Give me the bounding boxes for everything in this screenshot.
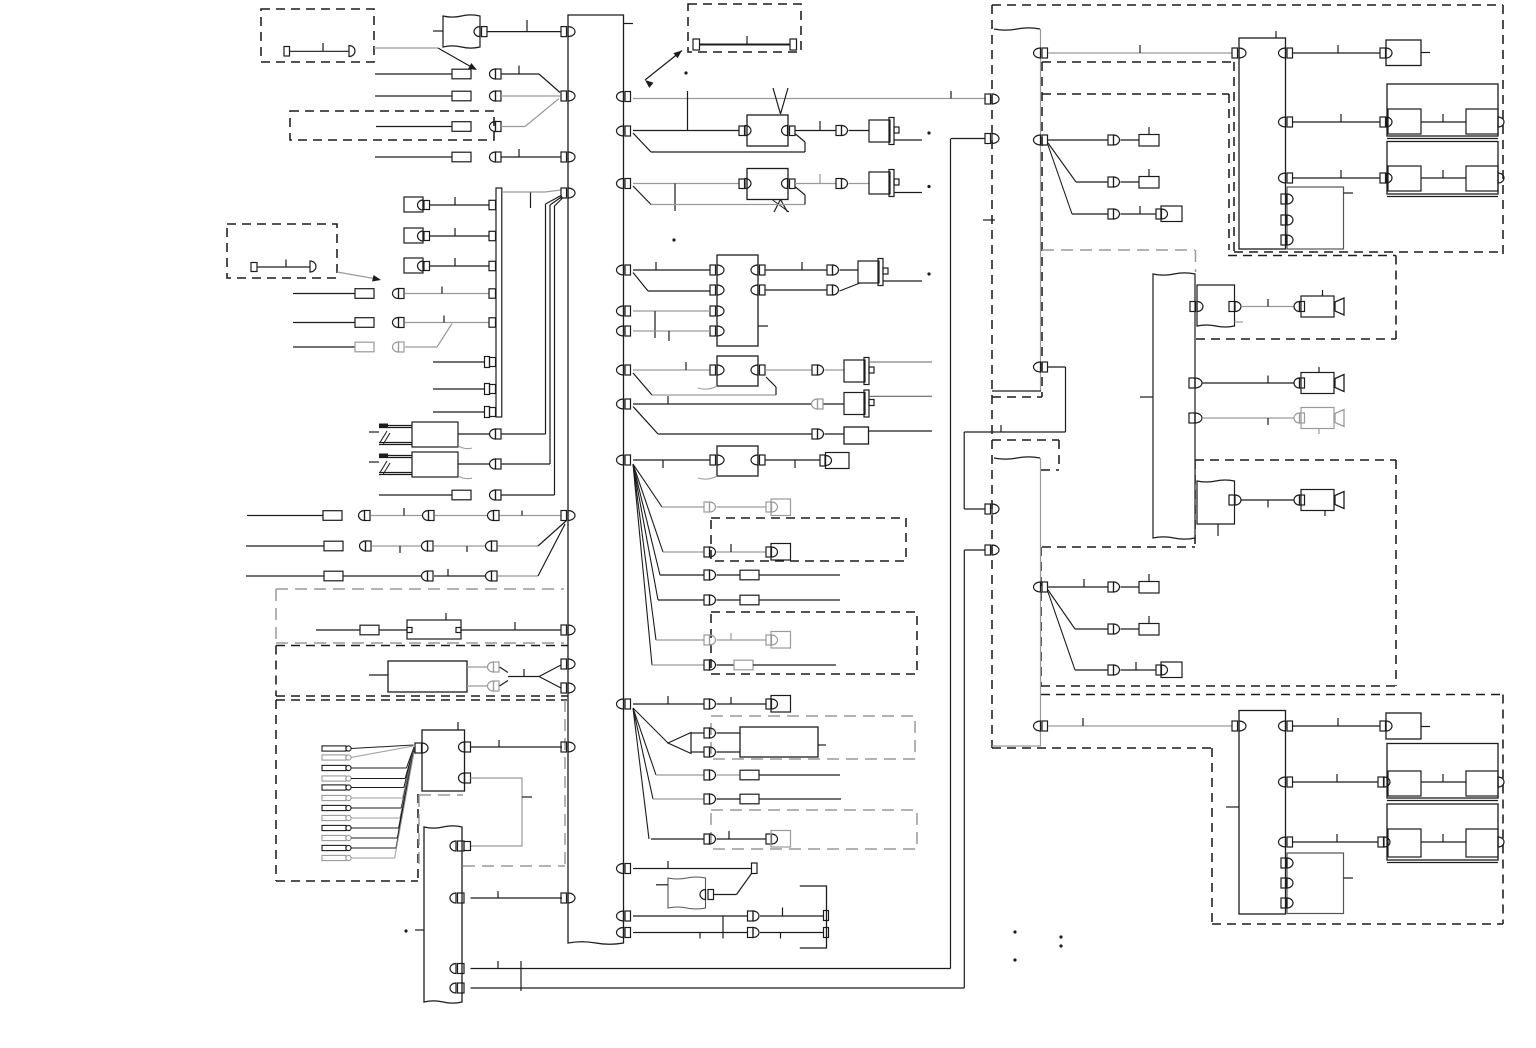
wire row y126 with fuse <box>376 126 452 128</box>
amplifier bus M2 <box>1153 273 1195 539</box>
bracket frame <box>800 886 827 948</box>
ignition coil 2 <box>412 452 458 477</box>
stub wires y362 y389 y412 to J/B-2 <box>433 361 485 363</box>
tick on harness edge y220 <box>983 219 995 221</box>
torn box TB1 (connector module) <box>443 15 480 48</box>
connector R2 left y509 <box>985 504 991 514</box>
engine control box row1 <box>739 126 745 136</box>
fanout R1 y140 <box>1034 135 1041 145</box>
IC2 left pin <box>415 743 422 753</box>
tick TB1 left <box>433 30 443 32</box>
dashed box DB3 (option switch) <box>227 224 337 278</box>
speaker S4 <box>1294 495 1300 505</box>
tick J/B-1 top right <box>624 23 634 25</box>
relay RL4 <box>844 360 865 382</box>
gray dashed box G2 <box>419 794 463 796</box>
unit B3 right pins <box>1279 721 1286 731</box>
IC1 out row y290 diagonal <box>765 289 827 291</box>
fan row y600 fuse <box>658 599 704 601</box>
gray dashed box D1 <box>276 588 564 590</box>
bus R1 (behind dash harness) <box>994 28 1040 30</box>
relay RL2 <box>869 172 890 194</box>
gray dashed box D6 <box>711 716 915 759</box>
connector R1 left y99 <box>985 94 991 104</box>
wavy module WM <box>668 877 706 909</box>
connector at J/B-1 left y=157 <box>561 152 567 162</box>
speaker row y383 <box>1189 378 1195 388</box>
row y404 relay RL5 <box>617 399 624 409</box>
unit B3 wire y726 to box E2 <box>1293 725 1381 727</box>
connector at J/B-1 left y=193 <box>561 188 567 198</box>
unit B wire y122 to DBX1 <box>1293 121 1381 123</box>
double box DBX4 <box>1387 804 1498 860</box>
connector J/B-3 right y968 long wire W1 <box>450 964 456 974</box>
sensor resistor array <box>322 746 346 751</box>
T1 right pin speaker wire <box>1229 302 1235 312</box>
fan row y507 terminal <box>662 506 704 508</box>
IC2 right pin A wire to J/B-1 <box>459 742 465 752</box>
connector R2 right y726 gray wire to unit B3 <box>1034 721 1041 731</box>
row1 return loop <box>633 133 651 152</box>
double-head arrow top <box>645 51 682 81</box>
speaker row y418 gray <box>1189 413 1195 423</box>
wire row y576 <box>246 575 324 577</box>
row2 return loop <box>633 186 651 205</box>
switch row y236 to J/B-2 <box>404 228 423 243</box>
row y704 from J/B-1 <box>617 699 624 709</box>
dashed box DB2 <box>290 111 494 140</box>
fuse row y293 to J/B-2 <box>293 293 355 295</box>
bus R2 <box>994 457 1040 459</box>
row y434 box R6 <box>633 407 658 435</box>
connector J/B-3 right y988 long wire W2 <box>450 983 456 993</box>
ignition coil 1 <box>412 422 458 447</box>
engine control box row2 <box>739 179 745 189</box>
gray link J/B-2 top to J/B-1 <box>502 191 545 193</box>
bus bar J/B-2 (left small bus) <box>496 188 502 417</box>
fan row y575 fuse <box>660 574 704 576</box>
tick J/B-3 left y930 <box>415 929 424 931</box>
IC1 out row y270 relay RL3 <box>765 269 827 271</box>
fan row y665 fuse <box>652 664 704 666</box>
connector at J/B-1 left y=688 <box>561 683 567 693</box>
wire row y546 <box>246 545 324 547</box>
connector J/B-1 right y96 gray trunk wire <box>617 92 624 102</box>
unit B3 wire y782 to DBX3 <box>1293 781 1379 783</box>
control unit B <box>1239 38 1286 249</box>
BX2 return loop <box>633 373 652 395</box>
component inside DB1: terminal and wire <box>284 47 290 57</box>
wire W0 from R1 to R2 <box>1034 362 1041 372</box>
gray dashed box D7 <box>711 810 917 849</box>
connector at J/B-1 left y=32 <box>561 27 567 37</box>
double box DBX3 <box>1387 744 1498 799</box>
unit B left pin y53 <box>1232 48 1238 58</box>
component inside DBtop <box>693 39 700 50</box>
T2 right pin speaker wire <box>1229 495 1235 505</box>
component inside DB3 <box>251 263 257 272</box>
relay RL1 <box>869 120 890 142</box>
control unit B3 <box>1239 711 1286 915</box>
module box BB in D6 <box>691 732 704 734</box>
connector R2 left y550 wire W2 <box>985 545 991 555</box>
sub box C3 on unit B3 <box>1287 853 1344 914</box>
wire DB1 to arrow <box>374 47 438 49</box>
multiplex unit IC2 <box>422 730 465 791</box>
row y916 <box>617 911 624 921</box>
fan row y799 fuse <box>653 798 704 800</box>
coil1 output wire <box>458 433 489 435</box>
row y868 terminal <box>617 864 624 874</box>
dashed box D5 <box>711 612 917 674</box>
wire row y74 with fuse <box>375 73 452 75</box>
lambda mark under box row2 <box>774 200 781 213</box>
row y932 <box>617 928 624 938</box>
coil2 output wire <box>458 463 489 465</box>
dashed box D4 <box>711 518 906 561</box>
switch row y205 to J/B-2 <box>404 197 423 212</box>
dots bottom right <box>1013 930 1016 933</box>
wires J/B-1 to IC1 <box>617 265 624 275</box>
fan row y839 terminal <box>651 838 704 840</box>
connector R1 right y53 wire to unit B <box>1034 48 1041 58</box>
fuse row y495 <box>379 494 452 496</box>
connector at J/B-1 left y=515 <box>561 511 567 521</box>
wire TB1 to J/B-1 <box>487 31 561 33</box>
unit B right pins <box>1279 48 1286 58</box>
unit B3 left pin y726 <box>1232 721 1238 731</box>
control unit box in D2 <box>388 661 467 692</box>
merge flag <box>668 733 691 754</box>
wire row y96 with fuse <box>375 95 452 97</box>
sensor box BX3 row y460 <box>617 455 624 465</box>
fan row y640 terminal <box>656 639 704 641</box>
fuse row y347 merge <box>293 346 355 348</box>
fan row y552 terminal <box>663 551 704 553</box>
fan row y775 fuse <box>656 774 704 776</box>
harness dashed outline right top <box>992 4 1503 6</box>
speaker S2 <box>1294 378 1300 388</box>
gray dashed top of G1 <box>1042 249 1195 251</box>
fuse row y322 to J/B-2 <box>293 322 355 324</box>
double box DBX2 <box>1387 142 1498 195</box>
dashed box R3 <box>1041 694 1503 696</box>
IC1 pins left <box>710 265 716 275</box>
unit B3 wire y842 to DBX4 <box>1293 841 1379 843</box>
connector at J/B-1 left y=664 <box>561 659 567 669</box>
wire DB3 arrow <box>337 272 374 279</box>
junction-block main harness bus J/B-1 <box>568 15 624 944</box>
black dashed box D3 <box>276 699 567 701</box>
speaker S1 <box>1294 302 1300 312</box>
tweeter feed box T1 <box>1197 285 1235 327</box>
fan from J/B-1 y704 <box>633 708 668 743</box>
tick M2 left y397 <box>1140 396 1153 398</box>
relay row 1 from J/B-1 y131 <box>617 126 624 136</box>
wire row y515 three connectors <box>247 515 323 517</box>
switch row y266 to J/B-2 <box>404 258 423 273</box>
sensor box BX2 row y370 <box>617 365 624 375</box>
wire row y157 with fuse <box>375 156 452 158</box>
IC2 right pin B loop box G3 <box>459 773 465 783</box>
arrowhead <box>468 63 477 70</box>
junction bus J/B-3 (lower left) <box>424 826 462 1003</box>
control module IC1 <box>717 255 758 346</box>
T1 left pin <box>1190 302 1196 312</box>
connector at TB1 right <box>474 27 480 37</box>
dashed box DBtop <box>688 4 801 52</box>
V mark on trunk wire <box>773 88 781 114</box>
unit B wire y178 to DBX2 <box>1293 177 1381 179</box>
unit B wire y53 to box E1 <box>1293 52 1381 54</box>
connector at J/B-1 left y=630 <box>561 625 567 635</box>
speaker S3 <box>1294 413 1300 423</box>
connector J/B-3 right y898 wire to J/B-1 <box>450 893 456 903</box>
dashed jog at bus R2 top <box>992 439 1059 441</box>
connector at J/B-1 left y=96 <box>561 91 567 101</box>
fanout R2 y587 <box>1034 582 1041 592</box>
woofer feed box T2 <box>1197 480 1235 524</box>
relay row 2 from J/B-1 y183 <box>617 179 624 189</box>
connector at J/B-1 left y=747 <box>561 742 567 752</box>
black dashed box D2 <box>276 645 568 647</box>
connector at J/B-3 right y=846 <box>450 841 456 851</box>
dashed box speakers R2 <box>1195 459 1396 461</box>
dashed box DB1 (option unit top-left) <box>261 9 374 62</box>
fan from J/B-1 y460 <box>633 464 662 507</box>
connector R1 left y138 wire W1 <box>985 134 991 144</box>
IC1 pins right <box>751 265 758 275</box>
sub box C2 on unit B <box>1287 187 1344 249</box>
double box DBX1 <box>1387 84 1498 136</box>
resistor module row y630 <box>316 629 360 631</box>
D2 unit outputs merge to J/B-1 <box>467 666 487 668</box>
